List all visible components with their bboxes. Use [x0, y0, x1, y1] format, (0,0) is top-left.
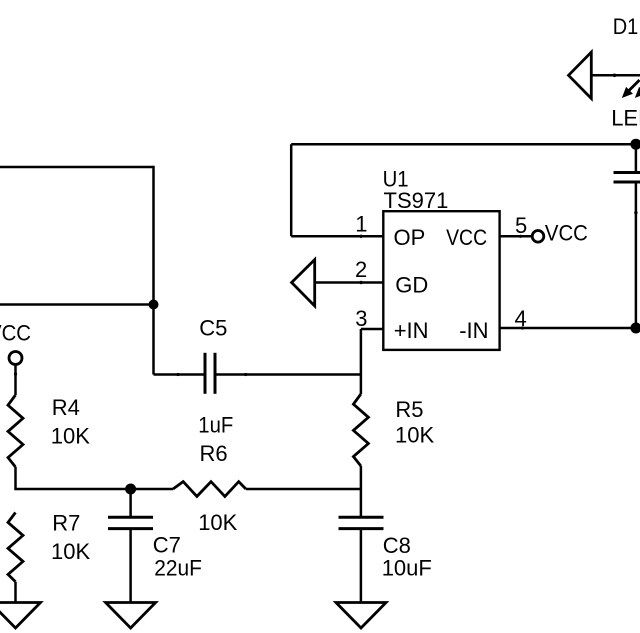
svg-text:4: 4: [515, 306, 527, 331]
svg-text:GD: GD: [395, 272, 428, 297]
ground under R7: [0, 603, 41, 629]
svg-text:1uF: 1uF: [198, 413, 233, 438]
resistor R4: [8, 395, 90, 467]
wire feedback top horizontal: [291, 143, 640, 146]
svg-text:TS971: TS971: [384, 188, 449, 213]
svg-text:D1: D1: [613, 14, 639, 39]
svg-text:10K: 10K: [395, 423, 434, 448]
capacitor right (cut off): [614, 173, 640, 183]
node junction dot pin4 right: [630, 323, 640, 334]
svg-text:+IN: +IN: [394, 318, 429, 343]
wire R5 to C8: [360, 466, 363, 516]
pin number 4: [515, 306, 527, 331]
resistor R7: [8, 511, 90, 582]
wire left horizontal to node: [0, 303, 154, 306]
wire node to right capacitor: [635, 144, 638, 171]
resistor R5: [353, 394, 434, 466]
wire R7 to ground: [14, 582, 17, 603]
svg-text:22uF: 22uF: [154, 556, 202, 581]
svg-text:5: 5: [515, 213, 527, 238]
resistor R6: [173, 441, 246, 535]
wire to C5 left plate: [154, 373, 205, 376]
op-amp U1 TS971: [383, 167, 500, 350]
svg-text:R4: R4: [52, 395, 80, 420]
svg-text:R6: R6: [200, 441, 228, 466]
wire pin2 stub: [315, 281, 384, 284]
svg-text:10K: 10K: [51, 424, 90, 449]
ground under C8: [336, 603, 386, 629]
pin number 5: [515, 213, 527, 238]
svg-text:3: 3: [355, 306, 367, 331]
wire VCC circle to R4: [14, 365, 17, 395]
svg-text:1: 1: [355, 212, 367, 237]
node junction dot C7: [125, 484, 136, 495]
wire pin5 stub: [500, 235, 532, 238]
wire rail right segment: [246, 488, 361, 491]
wire rail left segment: [16, 488, 174, 491]
svg-text:OP: OP: [394, 225, 426, 250]
wire right capacitor down to pin4 line: [634, 184, 637, 329]
pin number 3: [355, 306, 367, 331]
svg-text:-IN: -IN: [459, 318, 488, 343]
power VCC terminal: [0, 321, 31, 365]
svg-text:VCC: VCC: [545, 220, 588, 245]
svg-text:R7: R7: [52, 511, 80, 536]
wire C5 right plate to pin3 column: [176, 373, 361, 376]
LED arrow 1: [622, 80, 640, 98]
LED arrow 2: [635, 80, 640, 98]
pin number 1: [355, 212, 367, 237]
pin number 2: [355, 257, 367, 282]
LED D1: [569, 14, 640, 131]
svg-text:R5: R5: [395, 397, 423, 422]
ground under C7: [106, 603, 156, 629]
wire C8 to ground: [360, 529, 363, 603]
wire node down to C5 row: [152, 305, 155, 375]
svg-text:C7: C7: [153, 532, 181, 557]
speaker arrow symbol GD: [292, 260, 315, 306]
node junction dot top right: [630, 139, 640, 150]
svg-text:10uF: 10uF: [382, 556, 432, 581]
wire pin1 horizontal: [291, 235, 383, 238]
svg-text:C5: C5: [199, 316, 227, 341]
wire R4 to rail: [14, 467, 17, 490]
svg-text:2: 2: [355, 257, 367, 282]
wire top-left vertical: [152, 166, 155, 305]
power VCC terminal pin5: [532, 220, 588, 245]
svg-text:LED: LED: [611, 106, 640, 131]
svg-text:10K: 10K: [198, 510, 237, 535]
svg-text:10K: 10K: [51, 539, 90, 564]
svg-text:VCC: VCC: [446, 225, 487, 250]
wire C7 to ground: [129, 529, 132, 603]
wire pin3 vertical: [360, 329, 363, 394]
svg-text:VCC: VCC: [0, 321, 31, 346]
wire pin1 feedback: vertical: [290, 144, 293, 236]
capacitor C5: [198, 316, 233, 438]
svg-text:C8: C8: [383, 533, 411, 558]
wire pin4 horizontal: [500, 326, 640, 329]
wire D1 anode: [591, 74, 640, 78]
node junction dot: [149, 300, 159, 310]
capacitor C8: [339, 517, 432, 580]
wire pin 3 stub: [361, 328, 383, 331]
capacitor C7: [108, 489, 202, 581]
wire top-left horizontal: [0, 166, 154, 169]
